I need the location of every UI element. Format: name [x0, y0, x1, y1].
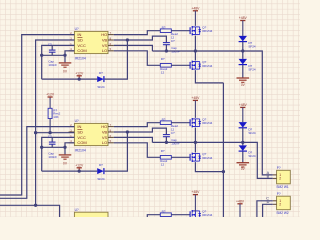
- resistor R? Res2 12 (low side) (ch2): [160, 149, 171, 166]
- svg-text:VCC: VCC: [77, 43, 86, 48]
- svg-text:U?: U?: [75, 208, 79, 212]
- wire resistor to gate low (ch2): [171, 156, 190, 158]
- svg-text:C?: C?: [48, 43, 52, 47]
- svg-text:SF24: SF24: [97, 85, 105, 89]
- resistor R? Res2 12 (high side) (ch2): [160, 117, 178, 131]
- diode D? SF24 lower (ch2): [239, 145, 256, 158]
- wire VCC rail (ch2): [40, 137, 74, 171]
- wire hi-side source to output (ch2): [194, 128, 197, 145]
- svg-text:+48V: +48V: [191, 190, 200, 194]
- svg-text:IN: IN: [77, 124, 81, 129]
- svg-text:SM2 W1: SM2 W1: [276, 185, 288, 189]
- svg-text:R?: R?: [162, 117, 166, 121]
- svg-text:R?: R?: [162, 209, 166, 213]
- wire SD bus: [0, 205, 60, 217]
- wire IN2 from left edge: [0, 127, 74, 199]
- svg-text:IR2104: IR2104: [75, 57, 86, 61]
- wire LO to gate resistor (ch2): [114, 143, 161, 158]
- op-amp driver U? IR2104 (ch3): [74, 208, 108, 234]
- wire diode to ground (ch2): [242, 151, 244, 162]
- svg-text:P?: P?: [277, 166, 281, 170]
- power +48V diode chain ch3: [236, 199, 245, 217]
- wire D to connector: [263, 204, 273, 217]
- power +48V drain (ch2): [191, 96, 200, 118]
- power +48V diode chain (ch1): [239, 16, 248, 36]
- transistor Q? IRFZ44 low side (ch2): [190, 152, 213, 162]
- wire SD1 from pin: [34, 40, 74, 207]
- wire HO3 corner: [147, 215, 160, 217]
- svg-text:100nF: 100nF: [48, 63, 57, 67]
- svg-text:SD: SD: [77, 37, 83, 42]
- wire VCC rail (ch1): [40, 45, 74, 79]
- svg-text:P?: P?: [277, 192, 281, 196]
- wire resistor to gate (ch2): [171, 122, 190, 124]
- svg-text:SD: SD: [77, 129, 83, 134]
- op-amp driver U? IR2104 (ch2): [69, 119, 114, 152]
- svg-text:R?: R?: [162, 25, 166, 29]
- wire diode to ground (ch1): [242, 65, 244, 78]
- wire lo-side drain (ch2): [194, 142, 196, 152]
- svg-text:SF24: SF24: [97, 177, 105, 181]
- wire COM to ground (ch1): [65, 51, 74, 63]
- svg-text:SF24: SF24: [248, 45, 256, 49]
- power +48V drain (ch1): [191, 6, 200, 26]
- svg-text:U?: U?: [75, 119, 79, 123]
- svg-text:+12V: +12V: [75, 71, 84, 75]
- svg-text:C?: C?: [171, 131, 175, 135]
- svg-text:2: 2: [279, 203, 281, 207]
- svg-text:+48V: +48V: [236, 199, 245, 203]
- wire source rail down: [222, 83, 224, 217]
- svg-text:VS: VS: [102, 43, 108, 48]
- svg-text:VB: VB: [102, 37, 108, 42]
- svg-text:C?: C?: [48, 135, 52, 139]
- wire LO to gate resistor (ch1): [114, 51, 161, 66]
- svg-text:C?: C?: [171, 39, 175, 43]
- svg-text:IR2104: IR2104: [75, 149, 86, 153]
- diode D? SF24 lower (ch1): [239, 59, 256, 72]
- svg-text:U?: U?: [75, 27, 79, 31]
- wire C to connector: [257, 201, 273, 217]
- diode D? SF24 upper (ch2): [239, 122, 256, 135]
- wire output node (ch2): [152, 141, 244, 144]
- connector P? SM2W2: [273, 192, 291, 215]
- wire diode to VB (ch1): [105, 38, 129, 79]
- wire VS to output (ch2): [114, 137, 153, 142]
- svg-text:+12V: +12V: [46, 93, 55, 97]
- wire lo-side source to rail (ch2): [195, 162, 225, 173]
- svg-text:+48V: +48V: [239, 103, 248, 107]
- svg-text:+12V: +12V: [75, 163, 84, 167]
- svg-text:12: 12: [161, 162, 165, 166]
- svg-text:LO: LO: [102, 140, 107, 145]
- resistor R? Res2 (ch3 high side): [160, 209, 171, 216]
- diode D? SF24 upper (ch1): [239, 36, 256, 49]
- wire HO to gate resistor (ch1): [114, 31, 161, 35]
- svg-text:IRFZ44: IRFZ44: [202, 64, 212, 68]
- wire cap branch (ch1): [42, 54, 67, 57]
- power +12V (ch1): [75, 71, 84, 80]
- wire +12V bootstrap (ch2): [42, 170, 97, 172]
- svg-text:SF24: SF24: [248, 68, 256, 72]
- wire hi-side source to output (ch1): [194, 36, 197, 53]
- resistor R? Res2 12 (low side) (ch1): [160, 57, 171, 74]
- transistor Q? IRFZ44 high side (ch2): [190, 118, 213, 128]
- wire output A to connector: [243, 51, 273, 175]
- capacitor C? 100nF bootstrap (ch1): [163, 39, 180, 54]
- svg-text:R?: R?: [161, 57, 165, 61]
- svg-text:COM: COM: [77, 48, 86, 53]
- svg-text:IRFZ44: IRFZ44: [202, 213, 212, 217]
- wire lo-side drain (ch1): [194, 51, 196, 61]
- wire resistor to gate (ch1): [171, 30, 190, 32]
- svg-text:D: D: [267, 200, 270, 204]
- wire diode mid (ch2): [242, 128, 244, 145]
- svg-text:IRFZ44: IRFZ44: [202, 156, 212, 160]
- ground 0V (ch1): [59, 63, 72, 74]
- node C label: [266, 197, 269, 201]
- op-amp driver U? IR2104 (ch1): [69, 27, 114, 60]
- svg-text:COM: COM: [77, 140, 86, 145]
- svg-text:R?: R?: [161, 149, 165, 153]
- resistor R? Res2 12 (high side) (ch1): [160, 25, 178, 39]
- svg-text:VB: VB: [102, 129, 108, 134]
- wire VB to cap (ch2): [114, 128, 167, 134]
- svg-text:+48V: +48V: [191, 6, 200, 10]
- svg-text:+48V: +48V: [191, 96, 200, 100]
- wire diode mid (ch1): [242, 42, 244, 59]
- power +48V drain ch3: [191, 190, 200, 211]
- connector P? SM2W1: [273, 166, 291, 189]
- wire output node (ch1): [152, 49, 244, 52]
- svg-text:100nF: 100nF: [48, 155, 57, 159]
- wire HO to gate resistor (ch2): [114, 123, 161, 127]
- wire SD2 to SD rail: [36, 132, 75, 134]
- transistor Q? IRFZ44 (ch3 high side): [190, 210, 213, 220]
- wire output B to connector: [243, 142, 273, 178]
- svg-text:HO: HO: [101, 124, 107, 129]
- wire COM to ground (ch2): [65, 143, 74, 155]
- ground 0V diode chain (ch1): [237, 78, 250, 87]
- svg-text:IRFZ44: IRFZ44: [202, 121, 212, 125]
- capacitor C? 100nF decoupling (ch1): [48, 43, 57, 67]
- transistor Q? IRFZ44 high side (ch1): [190, 26, 213, 36]
- power +12V (ch2): [75, 163, 84, 172]
- ground 0V diode chain (ch2): [237, 163, 250, 171]
- diode D? SF24 bootstrap (ch1): [97, 71, 105, 89]
- wire resistor to gate ch3: [171, 214, 190, 216]
- svg-text:IN: IN: [77, 32, 81, 37]
- ground 0V (ch2): [59, 155, 72, 166]
- node A label: [267, 171, 270, 175]
- diode D? SF24 bootstrap (ch2): [97, 163, 105, 181]
- wire IN1 from left edge: [0, 35, 74, 195]
- svg-text:2: 2: [279, 177, 281, 181]
- resistor R? Res2 10K pull-up: [48, 97, 61, 134]
- power +48V diode chain (ch2): [239, 103, 248, 122]
- wire diode to VB (ch2): [105, 130, 129, 171]
- capacitor C? 100nF decoupling (ch2): [48, 135, 57, 159]
- svg-text:SM2 W2: SM2 W2: [276, 211, 288, 215]
- power +12V pull-up: [46, 93, 55, 97]
- wire lo-side source to rail (ch1): [195, 70, 223, 83]
- wire +12V bootstrap (ch1): [42, 78, 97, 80]
- svg-text:VS: VS: [102, 135, 108, 140]
- svg-text:D?: D?: [99, 163, 103, 167]
- svg-text:SF24: SF24: [248, 154, 256, 158]
- svg-text:B: B: [267, 175, 270, 179]
- svg-text:HO: HO: [101, 32, 107, 37]
- node D label: [267, 200, 270, 204]
- svg-text:12: 12: [161, 70, 165, 74]
- node B label: [267, 175, 270, 179]
- svg-text:10K: 10K: [53, 115, 58, 119]
- svg-text:LO: LO: [102, 48, 107, 53]
- wire resistor to gate low (ch1): [171, 64, 190, 66]
- svg-text:+48V: +48V: [239, 16, 248, 20]
- wire VB to cap (ch1): [114, 36, 167, 42]
- svg-text:VCC: VCC: [77, 135, 86, 140]
- transistor Q? IRFZ44 low side (ch1): [190, 60, 213, 70]
- capacitor C? 100nF bootstrap (ch2): [163, 131, 180, 146]
- wire cap branch (ch2): [42, 146, 67, 149]
- wire VS to output (ch1): [114, 45, 153, 51]
- svg-text:IRFZ44: IRFZ44: [202, 29, 212, 33]
- svg-text:D?: D?: [99, 71, 103, 75]
- svg-text:SF24: SF24: [248, 131, 256, 135]
